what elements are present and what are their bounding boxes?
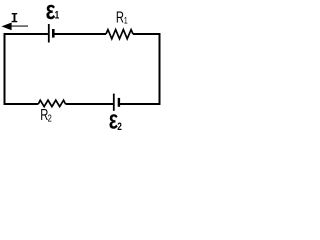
wire: top middle segment (53, 33, 106, 35)
label I (current) (12, 13, 18, 22)
current arrow head (2, 23, 12, 31)
svg-text:2: 2 (117, 121, 122, 130)
current arrow shaft (9, 25, 28, 27)
battery U2 (EMF source e2) long plate (113, 94, 115, 111)
battery U2 (EMF source e2) short plate (118, 98, 120, 107)
resistor R2 zigzag (38, 100, 65, 106)
battery U1 (EMF source e1) long plate (48, 24, 50, 43)
svg-text:1: 1 (124, 16, 128, 26)
wire: bottom middle segment (66, 103, 114, 105)
svg-text:R: R (116, 9, 124, 26)
svg-text:1: 1 (55, 10, 60, 22)
svg-text:2: 2 (48, 113, 52, 124)
battery U1 (EMF source e1) short plate (52, 29, 55, 38)
wire: left side + top-left segment (5, 34, 48, 104)
resistor R1 zigzag (106, 30, 133, 39)
wire: top-right + right side + bottom-right segment (120, 34, 160, 104)
